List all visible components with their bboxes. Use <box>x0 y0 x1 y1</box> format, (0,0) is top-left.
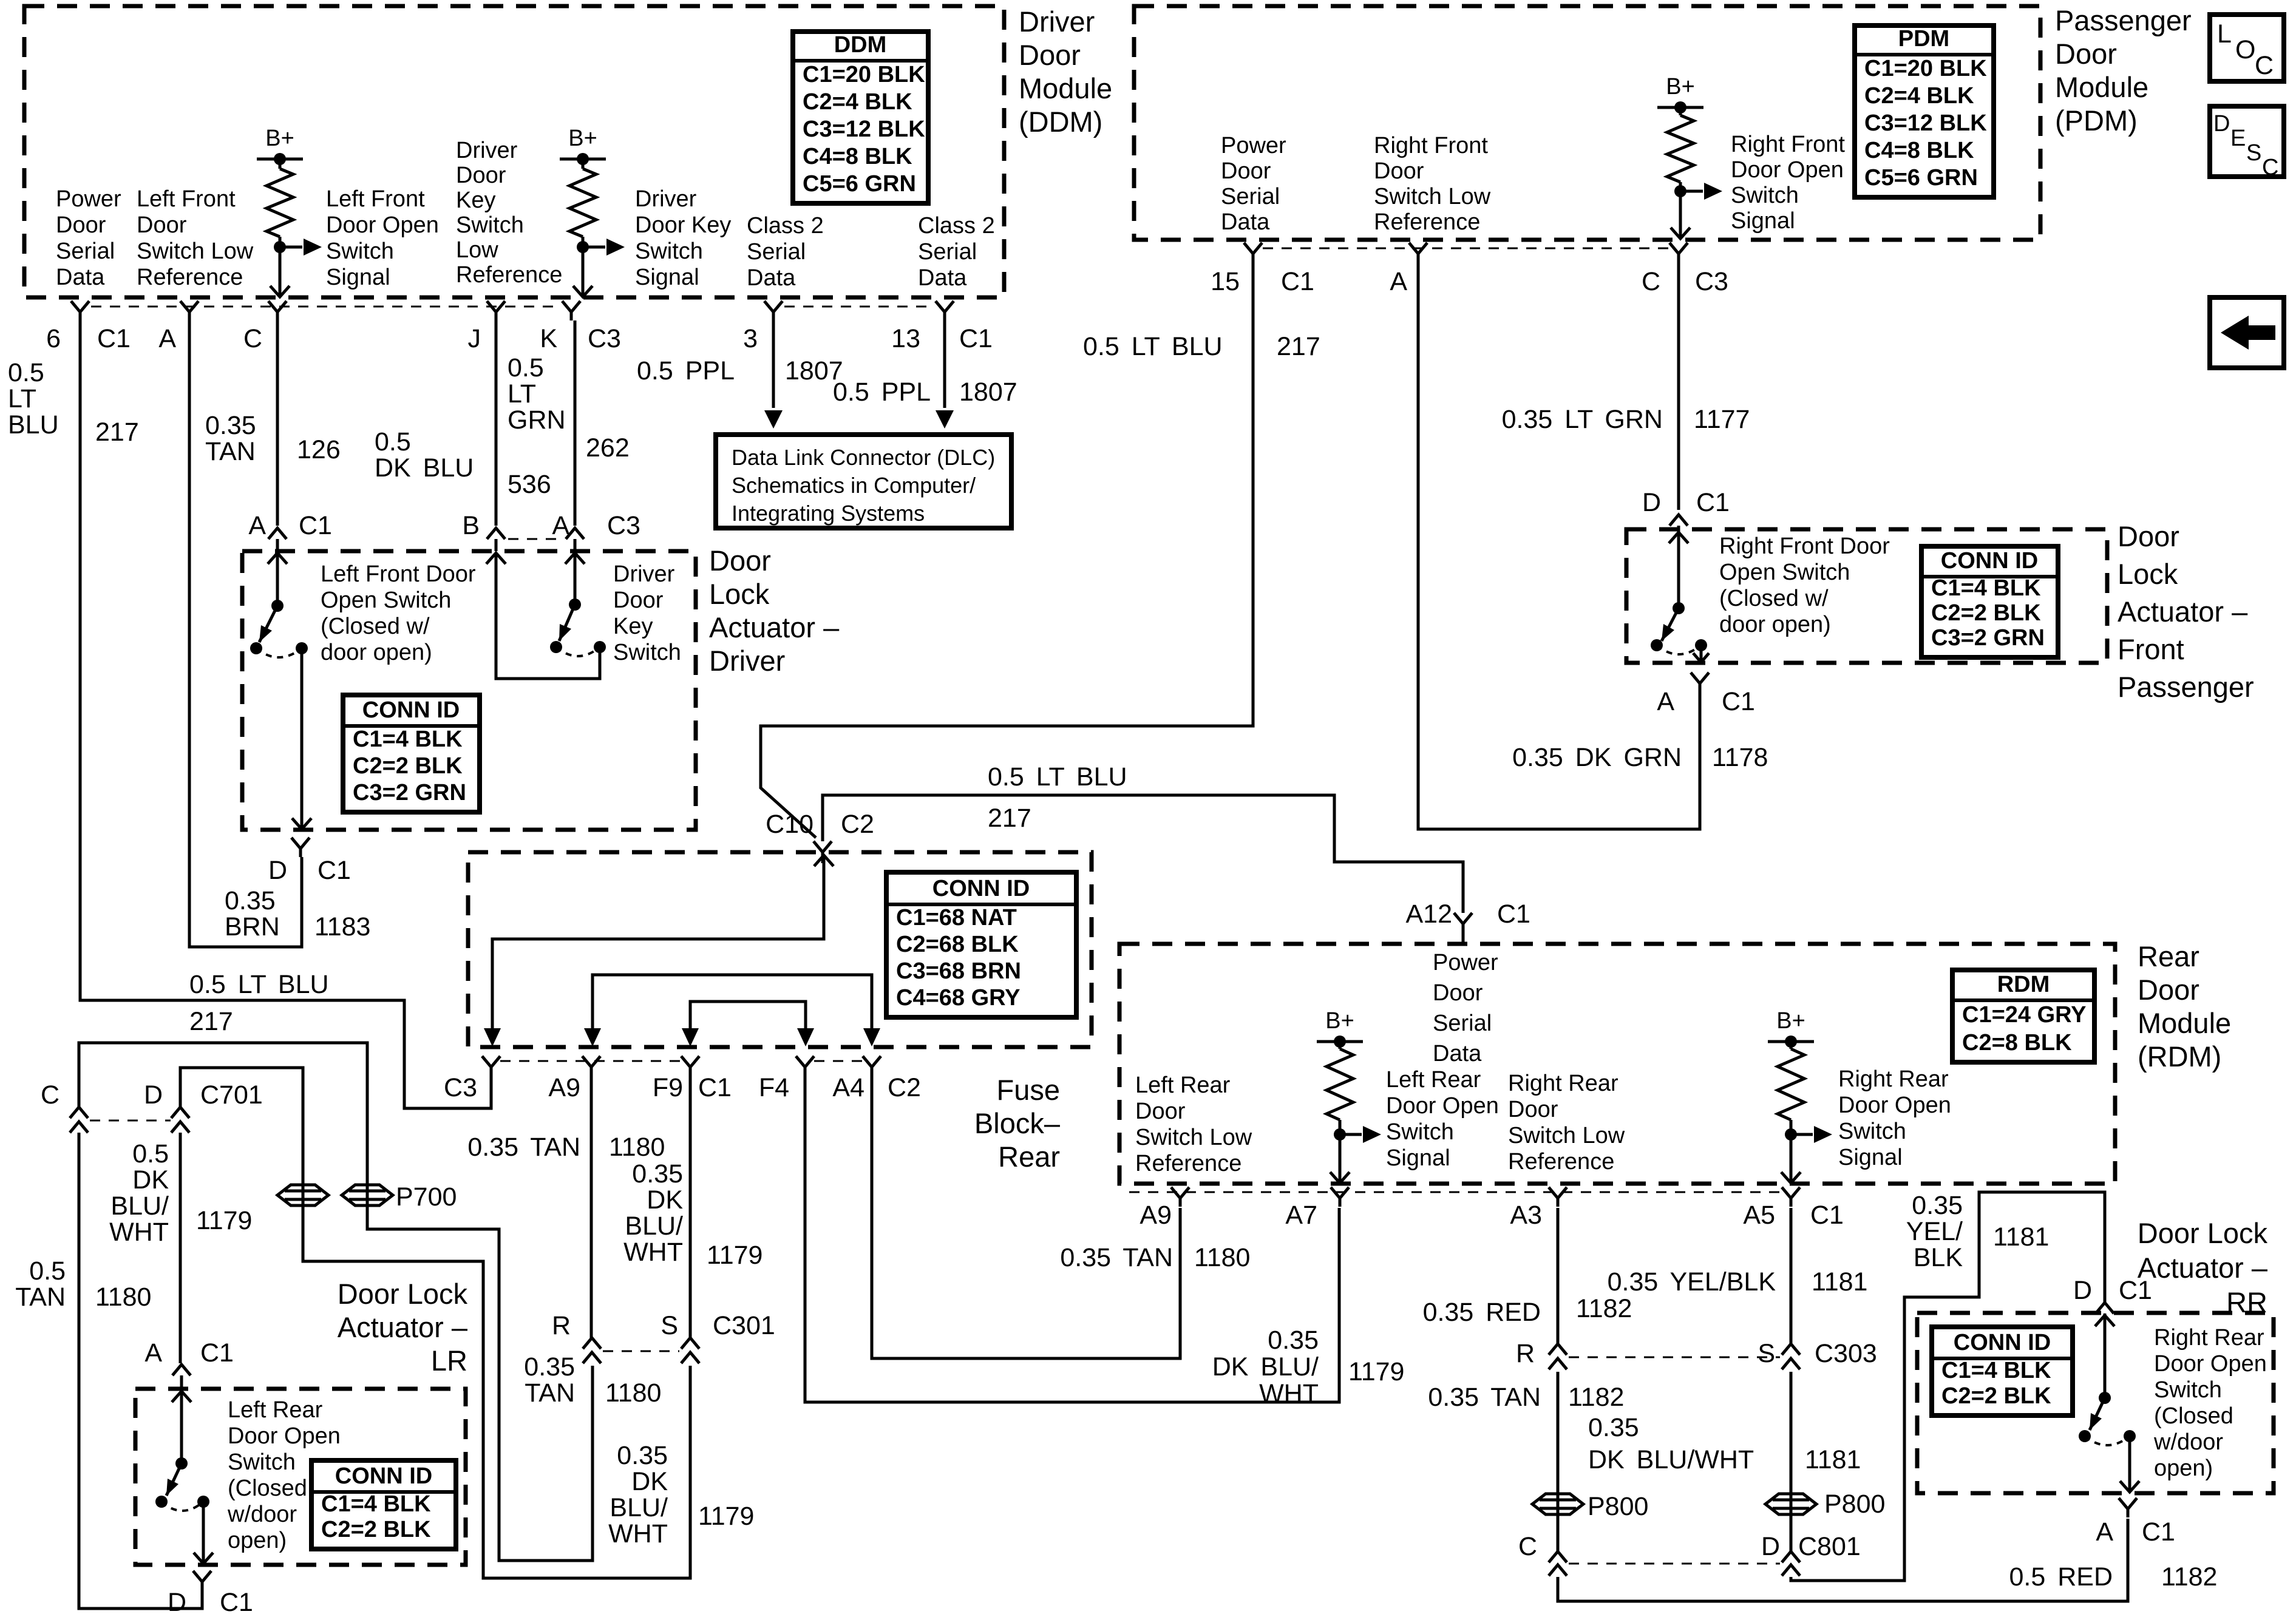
wire: 0.35 LT GRN 1177 from PDM C to D/C1 <box>1677 262 1680 510</box>
svg-text:DDM: DDM <box>834 32 887 58</box>
svg-text:DK BLU/: DK BLU/ <box>1212 1352 1319 1381</box>
Left Rear Door Open Switch symbol <box>180 1391 183 1462</box>
svg-text:Switch: Switch <box>228 1449 296 1475</box>
svg-text:C: C <box>243 324 262 353</box>
svg-text:Key: Key <box>613 614 653 639</box>
svg-text:Key: Key <box>456 188 495 213</box>
PDM pin connector at x=2336 <box>1409 243 1427 262</box>
svg-text:S: S <box>1758 1339 1775 1368</box>
PDM connector table <box>1855 25 1994 197</box>
back-arrow legend box <box>2210 297 2284 368</box>
svg-text:C4=8 BLK: C4=8 BLK <box>803 144 912 169</box>
svg-text:(PDM): (PDM) <box>2055 104 2138 137</box>
svg-text:Door: Door <box>1374 158 1424 184</box>
svg-text:C3: C3 <box>607 511 640 540</box>
svg-text:C2=2 BLK: C2=2 BLK <box>1941 1383 2051 1409</box>
fuse block pin connector at x=1436 <box>863 1056 881 1076</box>
svg-text:B+: B+ <box>568 126 597 151</box>
svg-text:0.5 LT BLU: 0.5 LT BLU <box>988 762 1127 792</box>
svg-text:O: O <box>2235 35 2255 64</box>
svg-text:Left Front Door: Left Front Door <box>321 561 476 587</box>
svg-text:C2=4 BLK: C2=4 BLK <box>1864 83 1974 109</box>
svg-text:0.35: 0.35 <box>617 1441 668 1470</box>
RDM pin connector at x=2207 <box>1331 1187 1349 1207</box>
RDM pin connector at x=2566 <box>1549 1187 1567 1207</box>
fuse block internal wire A9 to A4 <box>593 975 872 1032</box>
PDM bottom connector dashed line <box>1263 248 1669 249</box>
svg-text:217: 217 <box>189 1007 233 1036</box>
LOC legend box <box>2210 15 2284 81</box>
svg-text:A7: A7 <box>1285 1201 1317 1230</box>
svg-text:Signal: Signal <box>326 265 390 290</box>
svg-text:Switch: Switch <box>2154 1377 2222 1403</box>
svg-text:Switch: Switch <box>1386 1119 1454 1145</box>
svg-text:0.5: 0.5 <box>375 427 411 456</box>
wire: 0.5 LT BLU 217 from C10 junction to RDM A12 <box>823 795 1463 913</box>
svg-text:F4: F4 <box>759 1073 789 1102</box>
svg-text:DK BLU/WHT: DK BLU/WHT <box>1588 1445 1754 1474</box>
svg-text:C1: C1 <box>200 1338 234 1368</box>
svg-text:P800: P800 <box>1588 1492 1648 1521</box>
svg-text:Door Open: Door Open <box>228 1423 341 1449</box>
fuse block pin connector at x=974 <box>582 1056 600 1076</box>
wire: A9 fuse block down to C301 R <box>590 1076 593 1338</box>
svg-text:0.5 PPL: 0.5 PPL <box>833 378 931 407</box>
svg-text:Switch: Switch <box>456 212 524 238</box>
svg-text:Lock: Lock <box>709 578 770 610</box>
fuse block pin connector at x=1137 <box>681 1056 699 1076</box>
wire: 0.5 DK BLU from DDM pin J to switch B <box>495 320 498 526</box>
svg-text:217: 217 <box>95 418 139 447</box>
svg-text:0.35: 0.35 <box>1268 1326 1319 1355</box>
svg-text:0.35 YEL/BLK: 0.35 YEL/BLK <box>1608 1267 1776 1297</box>
Driver Door Key Switch symbol <box>574 553 577 603</box>
svg-text:0.5 RED: 0.5 RED <box>2009 1562 2113 1592</box>
wire: 0.5 LT BLU 217 from PDM 15 down-left to C10/C2 <box>761 262 1253 838</box>
svg-text:0.35: 0.35 <box>1588 1413 1639 1442</box>
svg-text:1180: 1180 <box>1194 1243 1250 1272</box>
svg-text:B+: B+ <box>265 126 294 151</box>
svg-text:BLU/: BLU/ <box>625 1212 683 1241</box>
svg-text:Data: Data <box>56 265 105 290</box>
svg-text:1179: 1179 <box>707 1241 763 1270</box>
svg-text:Data: Data <box>918 265 967 291</box>
wire: 0.5 LT BLU 217 from DDM pin 6 to Fuse Block C3 <box>80 320 491 1108</box>
C301 inline connector R / S <box>583 1338 601 1363</box>
arrow: Right Front Door Open Switch Signal <box>1680 190 1703 193</box>
svg-text:Door Lock: Door Lock <box>2138 1217 2268 1249</box>
svg-text:Signal: Signal <box>1731 208 1795 234</box>
svg-text:Class 2: Class 2 <box>747 213 824 239</box>
arrow: Left Rear Door Open Switch Signal <box>1340 1133 1362 1136</box>
svg-text:Door: Door <box>2118 520 2179 552</box>
svg-text:Signal: Signal <box>1838 1145 1903 1170</box>
DDM pin connector at x=1556 <box>936 301 954 320</box>
svg-text:Low: Low <box>456 237 498 263</box>
svg-text:A: A <box>248 511 266 540</box>
svg-text:Data Link Connector (DLC): Data Link Connector (DLC) <box>732 445 995 470</box>
svg-text:Actuator –: Actuator – <box>2138 1252 2268 1284</box>
svg-text:BLU/: BLU/ <box>110 1192 169 1221</box>
svg-text:C1: C1 <box>1722 687 1755 716</box>
svg-text:C1: C1 <box>97 324 131 353</box>
svg-text:C1: C1 <box>299 511 332 540</box>
svg-text:A12: A12 <box>1405 900 1452 929</box>
svg-text:P700: P700 <box>396 1182 457 1212</box>
svg-text:open): open) <box>2154 1456 2213 1481</box>
svg-text:R: R <box>1516 1339 1535 1368</box>
svg-text:LR: LR <box>431 1344 467 1377</box>
fuse block pin connector at x=1326 <box>796 1056 814 1076</box>
svg-text:D: D <box>168 1588 186 1617</box>
wire: RDM A3 down to C303 R (0.35 RED 1182) <box>1557 1208 1560 1344</box>
PDM pin connector at x=2064 <box>1244 243 1262 262</box>
svg-text:C1: C1 <box>1497 900 1530 929</box>
svg-text:Door Open: Door Open <box>1731 157 1844 183</box>
svg-text:C301: C301 <box>713 1311 775 1340</box>
svg-text:Driver: Driver <box>709 645 785 677</box>
svg-text:13: 13 <box>891 324 920 353</box>
svg-text:J: J <box>468 324 481 353</box>
svg-text:C: C <box>1518 1532 1537 1561</box>
svg-text:217: 217 <box>988 804 1031 833</box>
svg-text:Signal: Signal <box>635 265 699 290</box>
svg-text:0.35 LT GRN: 0.35 LT GRN <box>1502 405 1663 434</box>
svg-text:C: C <box>2255 51 2274 80</box>
A C1 connector below front passenger actuator <box>1691 673 1709 692</box>
svg-text:Passenger: Passenger <box>2118 671 2254 703</box>
svg-text:C303: C303 <box>1815 1339 1877 1368</box>
svg-text:0.35: 0.35 <box>632 1159 683 1188</box>
svg-text:Door Open: Door Open <box>2154 1351 2267 1377</box>
svg-text:Power: Power <box>56 186 121 212</box>
svg-text:Left Rear: Left Rear <box>1386 1067 1481 1093</box>
svg-text:Left Front: Left Front <box>137 186 236 212</box>
svg-text:Left Rear: Left Rear <box>1135 1073 1231 1098</box>
DDM pin connector at x=1274 <box>764 301 783 320</box>
svg-text:C2=2 BLK: C2=2 BLK <box>1931 600 2041 626</box>
svg-text:1181: 1181 <box>1812 1267 1867 1297</box>
svg-text:Driver: Driver <box>635 186 697 212</box>
svg-text:A3: A3 <box>1510 1201 1542 1230</box>
svg-text:C1=4 BLK: C1=4 BLK <box>1941 1358 2051 1383</box>
svg-text:C2: C2 <box>888 1073 921 1102</box>
wire: 0.35 TAN 126 from DDM pin C to LF door open switch A <box>276 320 279 526</box>
svg-text:C3: C3 <box>1695 267 1728 296</box>
Right Rear Door Open Switch dashed box <box>1917 1313 2274 1493</box>
svg-text:LT: LT <box>8 384 36 413</box>
svg-text:A9: A9 <box>1140 1201 1172 1230</box>
C303 inline connector R <box>1549 1344 1567 1369</box>
C701 inline connector C / D <box>70 1107 88 1133</box>
svg-text:E: E <box>2230 126 2246 151</box>
svg-text:C801: C801 <box>1798 1532 1861 1561</box>
svg-text:Switch: Switch <box>613 640 681 665</box>
svg-text:CONN ID: CONN ID <box>932 876 1030 901</box>
svg-text:C3=12 BLK: C3=12 BLK <box>803 117 925 142</box>
svg-text:A: A <box>2096 1517 2113 1547</box>
svg-text:C: C <box>2262 155 2278 180</box>
svg-text:1179: 1179 <box>1348 1357 1404 1386</box>
A C1 connector below RR switch <box>2119 1498 2137 1517</box>
svg-text:C5=6 GRN: C5=6 GRN <box>1864 165 1978 191</box>
svg-text:Door: Door <box>1433 980 1483 1006</box>
svg-text:RDM: RDM <box>1997 972 2050 997</box>
C10 C2 connector above Fuse Block <box>813 841 832 863</box>
svg-text:CONN ID: CONN ID <box>362 697 460 723</box>
PDM pin connector at x=2765 <box>1669 243 1688 262</box>
svg-text:Serial: Serial <box>1433 1011 1492 1036</box>
svg-text:0.35: 0.35 <box>1912 1191 1963 1220</box>
arrow: Driver Door Key Switch Signal <box>583 246 605 249</box>
P700 pass-through grommets <box>277 1185 328 1205</box>
svg-text:0.5 LT BLU: 0.5 LT BLU <box>1083 332 1223 361</box>
arrow: Right Rear Door Open Switch Signal <box>1791 1133 1813 1136</box>
svg-text:Front: Front <box>2118 633 2184 665</box>
DDM module box (Driver Door Module) <box>24 6 1004 297</box>
svg-text:w/door: w/door <box>2153 1429 2223 1455</box>
svg-text:Switch Low: Switch Low <box>137 239 254 264</box>
svg-text:Switch Low: Switch Low <box>1508 1123 1625 1148</box>
svg-text:WHT: WHT <box>623 1238 683 1267</box>
svg-text:Rear: Rear <box>998 1141 1060 1173</box>
svg-text:D: D <box>2213 111 2230 137</box>
svg-text:Right Front: Right Front <box>1374 133 1488 158</box>
svg-text:C2=2 BLK: C2=2 BLK <box>321 1517 431 1542</box>
svg-text:C3=2 GRN: C3=2 GRN <box>353 780 466 805</box>
svg-text:B+: B+ <box>1325 1008 1354 1034</box>
svg-text:Switch: Switch <box>326 239 394 264</box>
fuse block pin connector at x=809 <box>482 1056 500 1076</box>
DDM pin connector at x=457 <box>268 301 287 320</box>
svg-text:1180: 1180 <box>95 1283 151 1312</box>
svg-text:Left Rear: Left Rear <box>228 1397 323 1423</box>
svg-text:Reference: Reference <box>1135 1151 1241 1176</box>
svg-text:C1=20 BLK: C1=20 BLK <box>1864 56 1987 81</box>
svg-text:R: R <box>552 1311 571 1340</box>
svg-text:Driver: Driver <box>1019 5 1095 38</box>
wire: RDM A5 down to C303 S (0.35 YEL/BLK 1181) <box>1790 1208 1793 1344</box>
svg-text:Schematics in Computer/: Schematics in Computer/ <box>732 473 976 498</box>
CONN ID table (fuse block) <box>886 872 1076 1017</box>
svg-text:DK: DK <box>647 1185 683 1215</box>
wire: C701 C down to LR switch D (0.5 TAN 1180) <box>79 1133 202 1609</box>
RDM pin connector at x=1944 <box>1171 1187 1189 1207</box>
svg-text:Actuator –: Actuator – <box>2118 595 2248 628</box>
svg-text:0.35 TAN: 0.35 TAN <box>467 1133 580 1162</box>
svg-text:C4=68 GRY: C4=68 GRY <box>896 985 1021 1011</box>
PDM module box (Passenger Door Module) <box>1134 6 2040 240</box>
svg-text:Rear: Rear <box>2138 940 2199 972</box>
wire: 0.35 BRN 1183 loop from switch D to DDM pin A <box>189 320 302 947</box>
svg-text:Reference: Reference <box>1374 209 1480 235</box>
DDM pin connector at x=312 <box>180 301 199 320</box>
DDM pin connector at x=132 <box>71 301 89 320</box>
wire: 0.5 PPL 1807 (pin 3) to DLC <box>772 320 775 408</box>
svg-text:A: A <box>1657 687 1674 716</box>
svg-text:0.5: 0.5 <box>508 353 544 382</box>
svg-text:Serial: Serial <box>918 239 977 265</box>
svg-text:BLU/: BLU/ <box>610 1493 668 1522</box>
svg-text:C: C <box>41 1080 59 1110</box>
svg-text:C10: C10 <box>766 810 813 839</box>
svg-text:C1=4 BLK: C1=4 BLK <box>1931 575 2041 601</box>
svg-text:Data: Data <box>747 265 796 291</box>
DDM connector table <box>793 32 928 203</box>
svg-text:1180: 1180 <box>609 1133 665 1162</box>
svg-text:C5=6 GRN: C5=6 GRN <box>803 171 916 197</box>
svg-text:D: D <box>144 1080 163 1110</box>
C303 inline connector S <box>1782 1344 1800 1369</box>
D C1 connector below driver actuator <box>291 838 310 857</box>
svg-text:A4: A4 <box>832 1073 864 1102</box>
wire: C801 C along bottom to RR switch A (0.5 RED 1182) <box>1558 1519 2128 1601</box>
svg-text:door open): door open) <box>1719 612 1831 637</box>
svg-text:Fuse: Fuse <box>997 1074 1061 1106</box>
wire: F9 fuse block down to C301 S <box>689 1076 692 1338</box>
svg-text:0.5 LT BLU: 0.5 LT BLU <box>189 970 329 999</box>
svg-text:Door: Door <box>456 163 506 188</box>
RDM pin connector at x=2950 <box>1782 1187 1800 1207</box>
svg-text:1179: 1179 <box>698 1502 754 1531</box>
svg-text:Serial: Serial <box>747 239 806 265</box>
svg-text:0.35 TAN: 0.35 TAN <box>1428 1383 1541 1412</box>
svg-text:C1: C1 <box>959 324 993 353</box>
svg-text:Door: Door <box>1508 1097 1558 1122</box>
svg-text:C1: C1 <box>698 1073 732 1102</box>
svg-text:C1: C1 <box>2142 1517 2175 1547</box>
RDM bottom connector dashed line <box>1129 1192 1782 1193</box>
DDM bottom connector dashed line <box>91 306 935 308</box>
A C1 connector above LR switch <box>172 1364 191 1375</box>
svg-text:Module: Module <box>2138 1007 2231 1039</box>
svg-text:C3: C3 <box>588 324 621 353</box>
svg-text:(Closed: (Closed <box>2154 1403 2233 1429</box>
svg-text:6: 6 <box>46 324 61 353</box>
D C1 connector at RR actuator <box>2096 1303 2114 1314</box>
svg-text:A: A <box>144 1338 162 1368</box>
svg-text:(Closed w/: (Closed w/ <box>1719 586 1829 611</box>
svg-text:Door: Door <box>56 212 106 238</box>
svg-text:D: D <box>1761 1532 1780 1561</box>
Left Front Door Open Switch symbol <box>276 553 279 605</box>
svg-text:Module: Module <box>1019 72 1112 104</box>
svg-text:A: A <box>158 324 176 353</box>
svg-text:Switch: Switch <box>1838 1119 1906 1144</box>
svg-text:C: C <box>1642 267 1660 296</box>
wire: RDM A9 to fuse block A4 (0.35 TAN 1180) <box>872 1076 1180 1358</box>
svg-text:0.35: 0.35 <box>225 886 276 915</box>
wire: C301 R to P700 to C701 C (0.35 TAN 1180) <box>79 1043 593 1561</box>
svg-text:1181: 1181 <box>1805 1445 1861 1474</box>
svg-text:(RDM): (RDM) <box>2138 1040 2221 1073</box>
svg-text:C1=20 BLK: C1=20 BLK <box>803 62 925 87</box>
svg-text:1177: 1177 <box>1694 405 1750 434</box>
wire: C701 D down to LR switch A (0.5 DK BLU/WHT 1179) <box>179 1133 182 1363</box>
svg-text:Actuator –: Actuator – <box>709 611 840 643</box>
svg-text:C1: C1 <box>318 856 351 885</box>
svg-text:Reference: Reference <box>1508 1149 1614 1175</box>
wire: 0.5 PPL 1807 (pin 13) to DLC <box>943 320 946 408</box>
svg-text:0.5: 0.5 <box>132 1139 169 1168</box>
svg-text:C3: C3 <box>444 1073 477 1102</box>
fuse block internal wire C2 to C3 <box>814 855 834 866</box>
svg-text:1178: 1178 <box>1712 743 1768 772</box>
Right Front Door Open Switch symbol <box>1677 532 1680 607</box>
svg-text:Switch Low: Switch Low <box>1374 184 1491 209</box>
svg-text:A9: A9 <box>548 1073 580 1102</box>
svg-text:Open Switch: Open Switch <box>321 588 451 613</box>
wire: C303 R to C801 C (0.35 TAN 1182) <box>1557 1372 1560 1551</box>
svg-text:WHT: WHT <box>1259 1379 1319 1408</box>
svg-text:A5: A5 <box>1743 1201 1775 1230</box>
svg-text:1182: 1182 <box>1568 1383 1624 1412</box>
svg-text:L: L <box>2217 19 2232 49</box>
svg-text:D: D <box>1642 488 1661 517</box>
svg-text:C2: C2 <box>841 810 874 839</box>
svg-text:A: A <box>1390 267 1407 296</box>
svg-text:BLK: BLK <box>1914 1243 1963 1272</box>
svg-text:Switch: Switch <box>635 239 703 264</box>
svg-text:C2=2 BLK: C2=2 BLK <box>353 753 463 779</box>
svg-text:0.5: 0.5 <box>29 1256 66 1286</box>
fuse block internal wire F9 to F4 <box>690 1002 806 1032</box>
svg-text:0.35: 0.35 <box>524 1352 575 1381</box>
svg-text:Class 2: Class 2 <box>918 213 995 239</box>
svg-text:Open Switch: Open Switch <box>1719 560 1850 585</box>
svg-text:C4=8 BLK: C4=8 BLK <box>1864 138 1974 163</box>
Door Lock Actuator - Front Passenger dashed box <box>1626 529 2107 663</box>
svg-text:WHT: WHT <box>608 1519 668 1548</box>
DDM pin connector at x=817 <box>487 301 505 320</box>
svg-text:C1=4 BLK: C1=4 BLK <box>353 727 463 752</box>
svg-text:Door Open: Door Open <box>326 212 439 238</box>
Door Lock Actuator - Driver dashed box <box>242 551 696 830</box>
svg-text:Left Front: Left Front <box>326 186 425 212</box>
RDM module box (Rear Door Module) <box>1119 944 2115 1184</box>
svg-text:PDM: PDM <box>1898 26 1949 52</box>
svg-text:Right Front Door: Right Front Door <box>1719 534 1890 559</box>
svg-text:15: 15 <box>1211 267 1240 296</box>
svg-text:Door Key: Door Key <box>635 212 731 238</box>
wire: 0.35 DK GRN 1178 from switch A to PDM pin A <box>1418 262 1700 829</box>
svg-text:Door: Door <box>1221 158 1271 184</box>
svg-text:C2=8 BLK: C2=8 BLK <box>1962 1030 2072 1056</box>
svg-text:Door: Door <box>613 588 664 613</box>
svg-text:Actuator –: Actuator – <box>338 1311 468 1343</box>
svg-text:YEL/: YEL/ <box>1906 1217 1963 1246</box>
svg-text:3: 3 <box>743 324 758 353</box>
CONN ID table (RR switch) <box>1932 1327 2073 1415</box>
svg-text:DK: DK <box>631 1467 668 1496</box>
svg-text:B+: B+ <box>1776 1008 1805 1034</box>
svg-text:Right Rear: Right Rear <box>1838 1066 1949 1092</box>
svg-text:P800: P800 <box>1824 1490 1885 1519</box>
svg-text:0.35: 0.35 <box>205 411 256 440</box>
svg-text:Data: Data <box>1433 1041 1482 1066</box>
wire: C303 S to C801 D (0.35 DK BLU/WHT 1181) <box>1790 1372 1793 1551</box>
svg-text:Right Rear: Right Rear <box>1508 1071 1618 1096</box>
svg-text:C1: C1 <box>220 1588 253 1617</box>
svg-text:DK: DK <box>132 1165 169 1195</box>
DDM pin connector at x=941 <box>562 301 580 320</box>
svg-text:1180: 1180 <box>605 1378 661 1408</box>
svg-text:Right Front: Right Front <box>1731 132 1845 157</box>
svg-text:C3=68 BRN: C3=68 BRN <box>896 958 1021 984</box>
svg-text:536: 536 <box>508 470 551 499</box>
svg-text:GRN: GRN <box>508 405 566 435</box>
svg-text:0.35 DK GRN: 0.35 DK GRN <box>1512 743 1682 772</box>
